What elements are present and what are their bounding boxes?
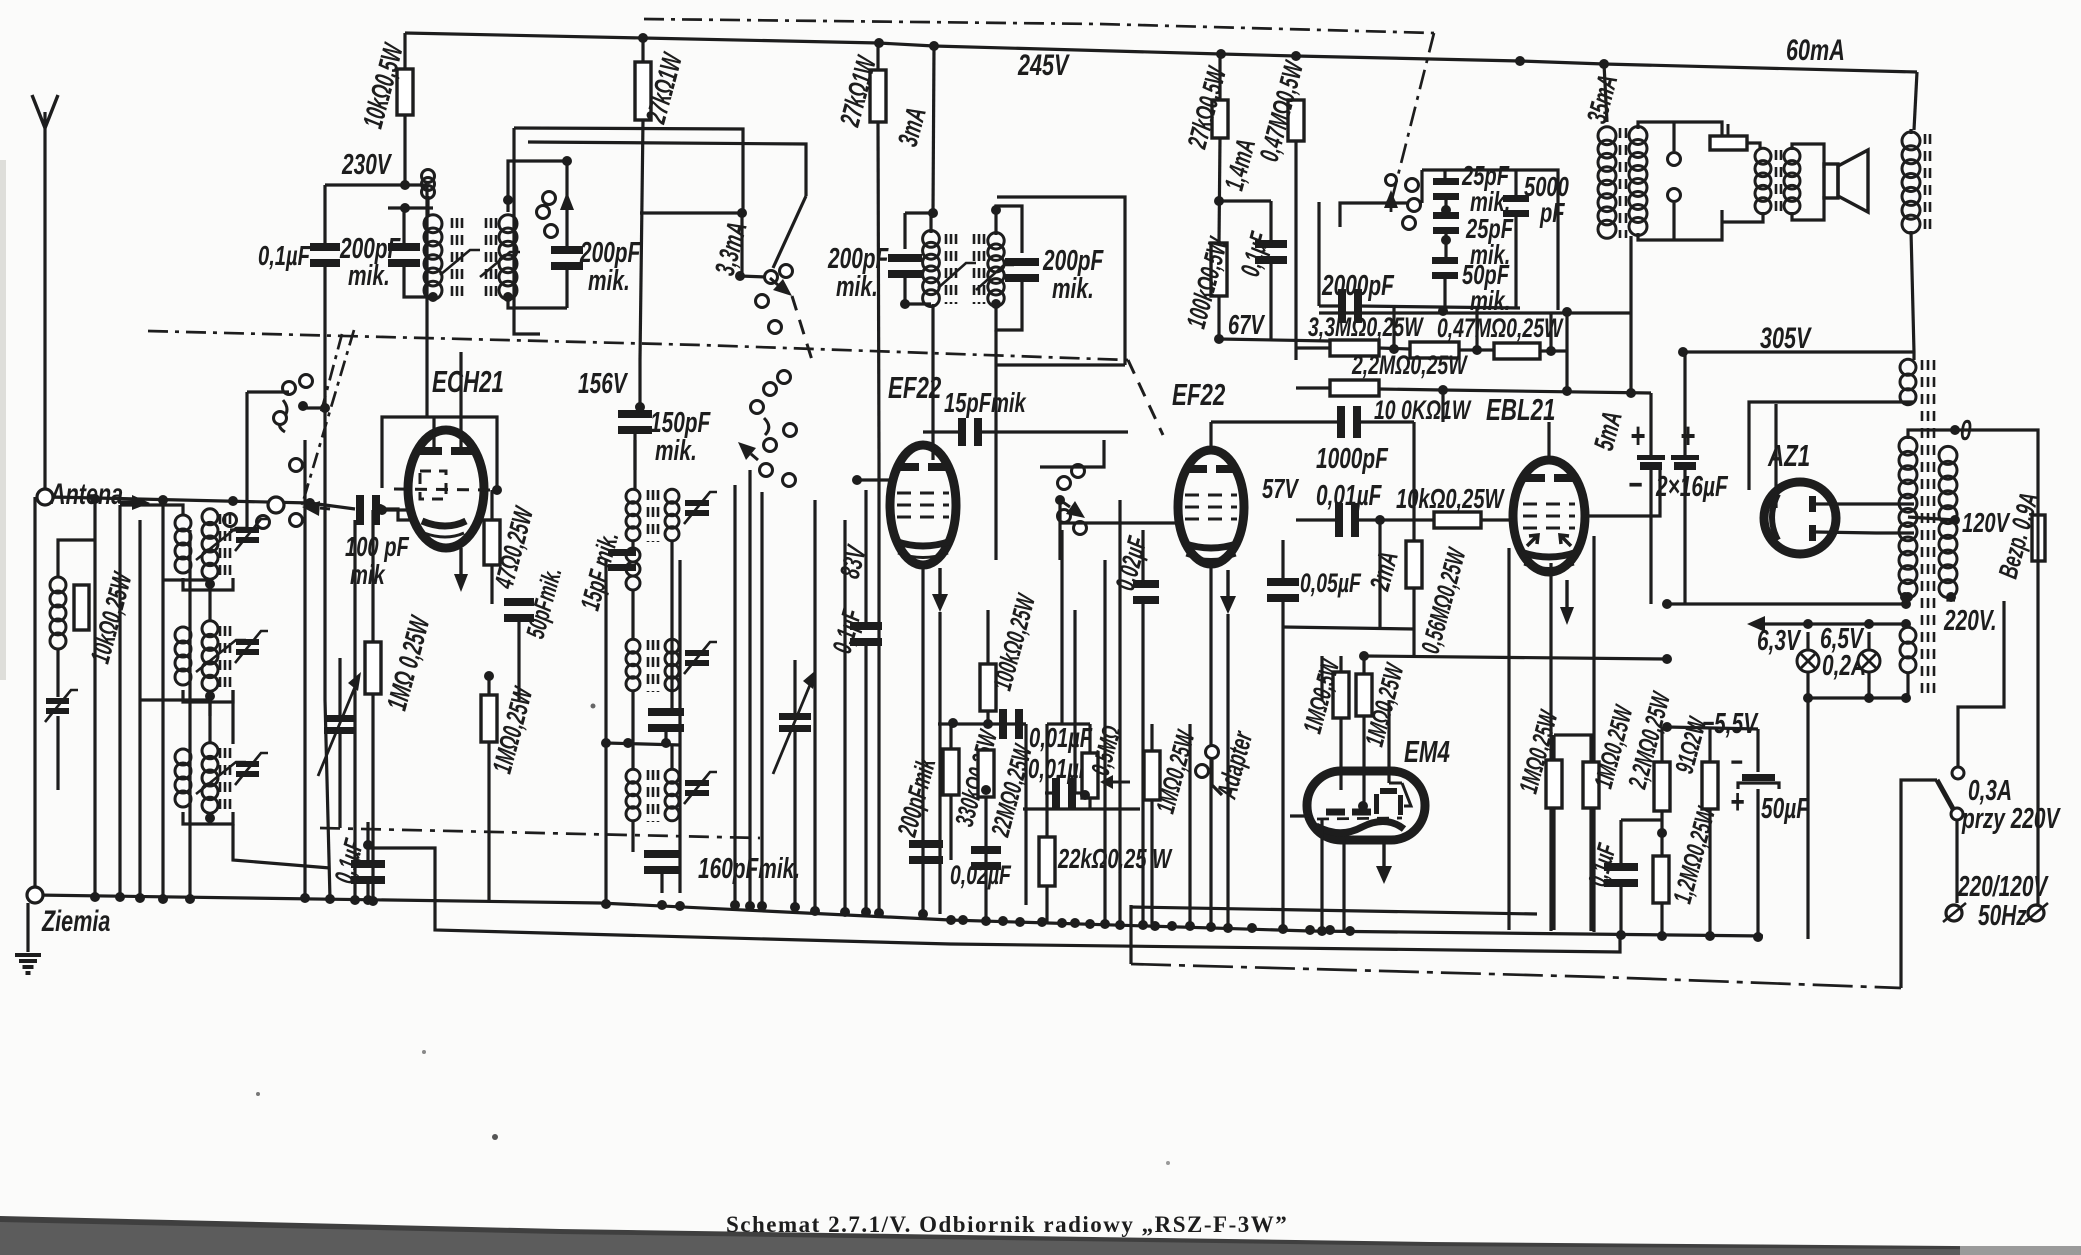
svg-text:−: − [1628, 466, 1642, 504]
heater arrow left [1747, 616, 1906, 632]
core field coil [1925, 134, 1930, 232]
capacitor osc pad C 160pF [644, 850, 680, 874]
junction IF2 prim top [928, 208, 938, 218]
terminal slash b [2025, 903, 2048, 922]
wire em4 grid col [1387, 700, 1390, 783]
wire antenna down [33, 497, 36, 895]
wire fuse down [2036, 561, 2039, 905]
tube EBL21 [1513, 460, 1585, 572]
switch IF1 c2 [537, 206, 550, 219]
wire switch down [1955, 820, 1958, 903]
wire IF2 prim top link [905, 213, 931, 233]
junction bus mid 21 [1345, 926, 1355, 936]
label 15pF mik. [574, 529, 625, 614]
wire em4 left col [1320, 820, 1323, 930]
wire 0,56M up [1412, 520, 1415, 541]
capacitor 2000pF [1338, 289, 1362, 323]
switch mid c3 [1058, 510, 1071, 523]
junction wafer arm [320, 403, 330, 413]
label 1MΩ0,25W em4 [1359, 659, 1410, 750]
adapter jack c2 [1196, 765, 1209, 778]
junction det row a [948, 718, 958, 728]
wire EBL21 bot col a [1507, 548, 1510, 930]
label 15pFmik [944, 388, 1027, 419]
inductor band coil A secondary [202, 509, 218, 579]
ground symbol [15, 955, 41, 973]
label mik b [1470, 240, 1510, 271]
wire 10k EBL right [1481, 518, 1513, 521]
junction bias bus a [1616, 930, 1626, 940]
wire fuse top [1955, 430, 2038, 515]
wire heater coil bot [1906, 672, 1909, 698]
capacitor 0,02µF det [971, 846, 1001, 870]
wire osc coils right col2 [670, 745, 673, 770]
wire 35mA sec drop [1629, 236, 1632, 393]
wire g2 link [1554, 735, 1591, 762]
switch osc2 c6 [760, 464, 773, 477]
label 50pFmik. [520, 564, 567, 641]
resistor middle row1 [1410, 342, 1459, 358]
junction osc bus2 [657, 900, 667, 910]
core output transformer [1620, 128, 1626, 238]
junction IF2 sec bot [991, 299, 1001, 309]
wire 27k2 long drop [877, 460, 880, 913]
wire EF22-1 bottom col [921, 565, 924, 914]
EM4 arrow [1376, 840, 1392, 884]
capacitor 0,1µF 67V [1255, 240, 1287, 264]
wire 220V tap down [1958, 601, 2004, 768]
wire coil A bot to bus [208, 696, 211, 716]
inductor IF1 primary [424, 215, 442, 300]
inductor PT HV winding [1900, 359, 1916, 404]
junction bus mid 17 [1247, 923, 1257, 933]
wire block box [1422, 170, 1558, 310]
wire IF1 prim bottom link [404, 264, 433, 297]
junction bus a [90, 892, 100, 902]
wire IF2 prim bot [905, 275, 931, 304]
wire 1000pF row [1211, 420, 1341, 423]
label 0,1µF IF [1234, 228, 1276, 280]
inductor band coil A primary [175, 515, 191, 573]
wire 15pF left [923, 430, 961, 433]
label 5000 [1524, 172, 1569, 203]
svg-text:67V: 67V [1228, 310, 1265, 341]
mains switch blade [1937, 780, 1957, 816]
junction IF2 sec top [991, 205, 1001, 215]
label pF 5000 [1539, 198, 1565, 229]
junction top rail 6 [1599, 59, 1609, 69]
inductor PT primary [1939, 446, 1957, 597]
capacitor 15pF mik osc [608, 549, 636, 571]
switch block c1 [1386, 175, 1397, 186]
label 0,1µF 83V a [826, 605, 868, 657]
switch block arrow [1384, 190, 1398, 212]
junction osc bus3 [675, 901, 685, 911]
label Antena [49, 476, 123, 510]
junction top rail 3 [1216, 49, 1226, 59]
wire EF22-1 arrow col [938, 612, 941, 914]
label 0,05µF [1300, 568, 1361, 598]
wire bus stub [1131, 907, 1537, 914]
label 0,02µF rot [1109, 532, 1153, 593]
label 100kΩ0,25W det [987, 589, 1042, 693]
junction block bottom b [1438, 306, 1448, 316]
resistor 2,2MΩ0,25W bias [1654, 762, 1670, 811]
wire 330k down [949, 795, 952, 860]
junction bus mid 0 [946, 915, 956, 925]
junction top rail 4 [1291, 51, 1301, 61]
junction bus mid 9 [1100, 919, 1110, 929]
switch osc2 c1 [764, 383, 777, 396]
wire 3,3mA top link [640, 211, 742, 214]
label 2x16uF minus [1628, 466, 1642, 504]
wire 156V drop [638, 360, 641, 405]
label mik [350, 560, 386, 591]
label 10kΩ0,25W ebl [1396, 484, 1505, 515]
tube EM4 [1307, 771, 1425, 840]
junction IF1 sec bottom [503, 292, 513, 302]
label 160pFmik. [698, 853, 800, 885]
junction osc bus1 [601, 899, 611, 909]
junction bus 923 [918, 909, 928, 919]
wire IF1 sec cap low [565, 266, 568, 308]
wire node row 656 [1364, 656, 1667, 659]
junction bus 815 [810, 906, 820, 916]
junction bus mid 5 [1037, 917, 1047, 927]
wire wafer L frame [230, 392, 247, 530]
wire varcap2 up [793, 660, 796, 713]
wire 0,1µF bl up [366, 822, 369, 864]
junction 1,2M top [1657, 828, 1667, 838]
wire 100k det node [986, 711, 989, 724]
junction 3,3mA [737, 208, 747, 218]
ECH21 cathode arrow [454, 548, 468, 592]
junction 5mA a [1562, 386, 1572, 396]
junction osc row3 [661, 738, 671, 748]
capacitor 150pF mik [618, 410, 652, 434]
wire row1 [1296, 346, 1330, 349]
inductor osc coil B L [626, 639, 640, 691]
wire 2000pF left [1319, 304, 1341, 307]
wire band coil B bottom [183, 690, 233, 702]
inductor band coil B primary [175, 627, 191, 685]
wire 100k det up [986, 610, 989, 664]
wire 809 row [1023, 807, 1140, 810]
junction mid col 735 [730, 900, 740, 910]
wire AZ1 box [1749, 402, 1914, 490]
wire IF2 sec top [996, 206, 1022, 253]
label 0,02µF det [950, 860, 1011, 890]
wire row2 drop [1441, 390, 1444, 422]
tube AZ1 [1764, 482, 1836, 554]
label 220/120V [1957, 871, 2049, 903]
junction heater b [1864, 619, 1874, 629]
switch osc2 c2 [778, 371, 791, 384]
inductor speaker matching R [1784, 148, 1800, 214]
wire field coil down [1911, 231, 1914, 352]
svg-text:220/120V: 220/120V [1957, 871, 2049, 903]
svg-text:ECH21: ECH21 [432, 364, 504, 398]
dash-dot AVC line [148, 331, 1128, 360]
inductor IF1 primary top [422, 170, 435, 199]
capacitor 1000pF [1337, 406, 1361, 438]
switch osc2 c3 [751, 401, 764, 414]
fuse line [2037, 512, 2040, 564]
dashed switch osc linkage [792, 296, 812, 360]
wire EBL21 arrow col [1592, 536, 1595, 932]
dash-dot tuning linkage [320, 828, 760, 838]
resistor 1MΩ0,25W af [1144, 751, 1160, 800]
wire lamp 1 bot [1806, 672, 1809, 698]
terminal ant c [268, 497, 284, 513]
junction EF22-1 grid [852, 475, 862, 485]
wire osc pad B down [664, 729, 667, 740]
junction bus mid 8 [1085, 919, 1095, 929]
trimmer osc coil A [684, 492, 717, 524]
capacitor 0,1µF top-left [310, 243, 340, 267]
inductor speaker field coil [1902, 132, 1920, 233]
wire IF1 inner box [528, 142, 806, 196]
dash-dot diagonal to wave switch [1391, 33, 1434, 203]
switch wafer L squiggle [279, 400, 287, 432]
svg-text:10 0KΩ1W: 10 0KΩ1W [1374, 395, 1472, 425]
capacitor 200pF mik IF1 primary [388, 243, 420, 267]
wire EF22-1 grid left [857, 478, 890, 481]
wire mid col 735 [733, 485, 736, 905]
wire EF22-2 anode col [1209, 422, 1212, 450]
resistor 1MΩ0,25W g2 [1583, 762, 1599, 808]
label 120V [1962, 508, 2010, 539]
terminal mains a [1946, 905, 1962, 921]
junction top rail 5 [1515, 56, 1525, 66]
capacitor 5000pF [1503, 195, 1529, 217]
wire speaker field top [1909, 129, 1912, 134]
wire ant col 95 [93, 499, 96, 897]
wire wafer L top [247, 390, 289, 393]
headphone jack c2 [1668, 189, 1681, 202]
wire IF1 sec bottom [508, 297, 567, 308]
junction top rail 0 [638, 33, 648, 43]
tuning arrow IF1 b [480, 252, 520, 277]
resistor 100kΩ0,25W [980, 664, 996, 711]
dash-dot bottom chassis line [1131, 964, 1901, 988]
capacitor 0,1µF bottom left [351, 860, 385, 884]
wire -5,5V row [1667, 727, 1758, 729]
junction bus mid 20 [1325, 925, 1335, 935]
core IF2 b [974, 234, 984, 304]
wire 1477 riser [1475, 306, 1478, 350]
potentiometer tone [1710, 136, 1747, 150]
junction 67V [1214, 334, 1224, 344]
inductor IF2 primary [923, 231, 940, 307]
wire ECH21 top wires a [432, 417, 435, 452]
wire 0,02µF down [1141, 601, 1144, 922]
wire col 305 low [303, 440, 306, 898]
label minus 50uF [1730, 744, 1743, 778]
wire L3 right riser [1899, 792, 1902, 988]
wire cap column c [1444, 232, 1447, 262]
wire IF1 box [514, 128, 743, 204]
junction bus 845 [840, 907, 850, 917]
svg-text:15pFmik: 15pFmik [944, 388, 1027, 419]
wire 0,1µF bias down [1619, 884, 1622, 935]
label 50pF [1462, 260, 1510, 291]
wire 0,05µF up [1281, 540, 1284, 582]
wire coil C bot to bus [233, 824, 330, 868]
junction -5,5V [1662, 722, 1672, 732]
label 1MΩ0,25W af [1150, 726, 1201, 817]
junction PT top b [1900, 592, 1910, 602]
wire osc col 606 down [604, 743, 607, 904]
wire ant col 140 [138, 520, 141, 898]
label 200pF IF2 prim [827, 243, 889, 275]
switch wafer L c2 [300, 375, 313, 388]
junction osc switch [735, 271, 745, 281]
wire cap a down [1649, 470, 1652, 604]
switch wafer L dot [298, 401, 308, 411]
wire varcap1 up [338, 658, 341, 715]
wire block sw link [1340, 203, 1391, 227]
junction heater d [1803, 693, 1813, 703]
wire otp top link [1638, 122, 1674, 129]
wire em4 r1 up [1339, 656, 1342, 672]
svg-text:60mA: 60mA [1786, 32, 1845, 66]
wire osc col 606 [604, 560, 607, 743]
svg-text:50Hz: 50Hz [1978, 900, 2027, 932]
junction top rail 1 [874, 38, 884, 48]
wire 0,1µF bias up [1619, 820, 1622, 867]
junction switch mid [1055, 495, 1065, 505]
junction bus mid 10 [1115, 920, 1125, 930]
svg-text:AZ1: AZ1 [1767, 438, 1810, 472]
label plus 50uF [1730, 783, 1744, 821]
junction bus e [185, 894, 195, 904]
wire 0,02µF up [1141, 530, 1144, 584]
label 2x16uF plus b [1680, 416, 1695, 456]
EF22-1 cathode arrow [932, 568, 948, 612]
label EF22 second [1172, 377, 1225, 411]
potentiometer 0,5MΩ [1082, 753, 1098, 798]
wire varcap1 down [338, 733, 341, 828]
wire top rail right drop to speaker winding [1914, 72, 1917, 130]
junction row1 a [1389, 344, 1399, 354]
wire g1 down [1552, 808, 1555, 930]
wire IF1 sec cap [565, 161, 568, 249]
junction 1Mgrid bus [368, 896, 378, 906]
svg-text:50µF: 50µF [1761, 793, 1809, 825]
inductor osc coil A L [626, 489, 640, 541]
speaker symbol [1824, 150, 1868, 212]
fuse Bezp 0,9A [2032, 515, 2045, 561]
label mik IF1 sec [588, 265, 630, 297]
svg-text:10kΩ0,25W: 10kΩ0,25W [1396, 484, 1505, 515]
label 156V [578, 368, 629, 400]
label mik IF2 prim [836, 271, 878, 303]
lamp dial 1 [1797, 650, 1819, 672]
resistor 3,3MΩ0,25W [1330, 340, 1379, 356]
capacitor 0,1µF bias [1604, 863, 1638, 887]
inductor osc coil C L [626, 769, 640, 821]
label EM4 [1404, 734, 1450, 768]
wire 230V vertical [323, 185, 326, 246]
junction bus mid 11 [1138, 920, 1148, 930]
wire 10k EBL left [1380, 518, 1434, 521]
wire bus stub riser [1129, 905, 1132, 964]
wire mid col 1120 [1118, 500, 1121, 922]
wire det row right [1020, 722, 1026, 725]
wire jack c2 stub [1672, 203, 1675, 240]
junction bus mid 14 [1185, 921, 1195, 931]
svg-text:3,3MΩ0,25W: 3,3MΩ0,25W [1308, 312, 1424, 342]
junction bus 795 [790, 902, 800, 912]
terminal mains b [2028, 905, 2044, 921]
label 0,01µF det1 [1029, 723, 1093, 754]
wire 2mA col [1378, 520, 1381, 627]
caption Schemat [726, 1212, 1288, 1237]
junction row1 b [1472, 345, 1482, 355]
label 0 [1960, 415, 1972, 447]
junction antenna 3 [228, 496, 238, 506]
junction bus mid 6 [1057, 918, 1067, 928]
wire right edge drop [1912, 352, 1915, 360]
switch block c2 [1406, 179, 1419, 192]
wire band coil A bottom [183, 578, 233, 590]
wire AZ1 fil a [1816, 502, 1914, 505]
switch osc c4 [769, 321, 782, 334]
label 2,2MΩ0,25W [1351, 350, 1468, 380]
wire osc switch arm [740, 276, 766, 277]
inductor PT secondary HV [1899, 437, 1917, 598]
label 27kΩ0,5W [1181, 63, 1233, 153]
wire 1M osc down [487, 742, 490, 902]
junction grid sw [305, 498, 315, 508]
label 0,1µF bottom left [328, 835, 370, 887]
wire IF1 sec top link [508, 161, 567, 212]
wire 91 down [1708, 809, 1711, 936]
junction bias bus d [1753, 932, 1763, 942]
label ECH21 [432, 364, 504, 398]
wire em4 r2 up [1362, 656, 1365, 674]
wire cap column b [1444, 198, 1447, 217]
wire ECH21 frame [382, 417, 497, 488]
resistor 330kΩ0,25W [943, 749, 959, 795]
junction bus b [115, 892, 125, 902]
resistor 27kΩ1W second [870, 70, 886, 122]
wire lamp 1 stub [1806, 632, 1809, 650]
trimmer antenna [45, 690, 78, 722]
junction band coil C [205, 813, 215, 823]
svg-text:EM4: EM4 [1404, 734, 1450, 768]
wire 2000pF right [1359, 306, 1520, 308]
label 1000pF [1316, 443, 1388, 475]
switch IF1 arrow [560, 192, 574, 215]
wire 27k1 bottom [640, 120, 643, 360]
switch wafer L c3 [274, 412, 287, 425]
switch wafer L c4 [290, 459, 303, 472]
label 25pF b [1465, 214, 1514, 245]
capacitor 0,1µF EF22-1 [850, 622, 882, 646]
capacitor 50pFmik ECH [504, 598, 534, 622]
capacitor 50µF electrolytic [1738, 774, 1779, 789]
wire EBL21 bot col b [1549, 563, 1552, 931]
inductor antenna coil [50, 577, 66, 649]
junction PT bottom b [1946, 592, 1956, 602]
resistor 100kΩ0,5W [1211, 243, 1227, 296]
wire 27k2 bottom [878, 122, 879, 460]
antenna V top [32, 95, 58, 497]
label 3,3MΩ0,25W [1308, 312, 1424, 342]
core osc coil A [648, 490, 658, 542]
